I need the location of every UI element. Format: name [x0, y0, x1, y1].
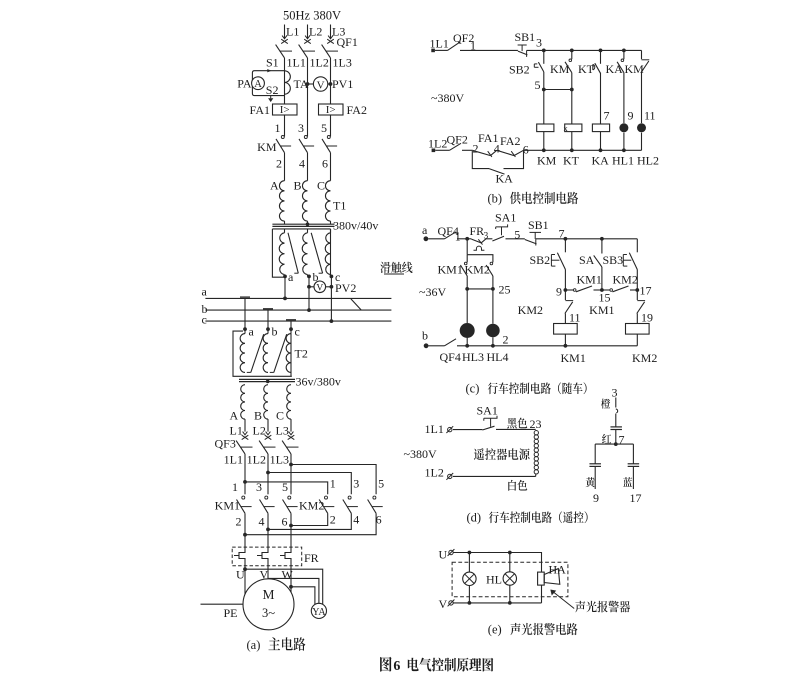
FR heater elements: [234, 547, 291, 566]
wire yellow tail: [594, 466, 596, 489]
svg-text:1: 1: [455, 230, 461, 244]
contactor KM1 main: [215, 496, 298, 513]
top rail b: [544, 49, 642, 53]
label 380V b: [431, 91, 464, 105]
wire a-QF4: [428, 238, 444, 240]
terminal 1L2 d: [446, 473, 453, 480]
node 1 b: [470, 39, 476, 53]
lamp HL4: [486, 324, 500, 338]
wire KM-T1 A: [284, 153, 286, 181]
node 1L1: [287, 56, 306, 70]
svg-text:1L2: 1L2: [247, 453, 266, 467]
node 1L2: [310, 56, 329, 70]
svg-text:YA: YA: [312, 607, 326, 618]
label W: [282, 568, 294, 582]
wire HL1 out: [623, 133, 625, 151]
svg-text:4: 4: [259, 515, 265, 529]
node 1L1 d: [425, 422, 444, 436]
terminal T2 b: [266, 325, 277, 339]
caption e: [488, 623, 578, 637]
node 11 b: [644, 109, 656, 123]
svg-text:S1: S1: [266, 56, 279, 70]
node 7 c: [559, 226, 568, 240]
node KM2-1: [330, 477, 336, 491]
svg-text:SA1: SA1: [477, 404, 498, 418]
wire QF3-KM1 1: [244, 454, 246, 494]
node 9 b: [628, 109, 634, 123]
wire KA drop: [623, 50, 625, 59]
caption b: [488, 192, 579, 206]
svg-text:A: A: [270, 178, 279, 192]
switch SA1 c: [492, 211, 516, 242]
wire tap a: [244, 298, 246, 329]
wire SB2 drop: [543, 50, 545, 63]
svg-text:PV2: PV2: [335, 281, 356, 295]
wire a-bus: [284, 276, 286, 298]
svg-text:~380V: ~380V: [431, 91, 464, 105]
contact KT delay: [578, 50, 601, 76]
wire KMaux-KT: [571, 73, 573, 124]
wire KM2 out 3: [245, 513, 376, 534]
svg-text:4: 4: [299, 157, 305, 171]
svg-text:B: B: [294, 178, 302, 192]
svg-text:a: a: [288, 270, 294, 284]
svg-text:6: 6: [322, 157, 328, 171]
svg-text:U: U: [236, 568, 245, 582]
wire KM2 out 1: [291, 513, 328, 525]
wire branch 1L1: [243, 480, 328, 494]
node 17 d: [630, 491, 642, 505]
label HL e: [486, 573, 502, 587]
svg-text:HA: HA: [549, 563, 567, 577]
wire lamp1 out: [468, 586, 470, 603]
svg-text:a: a: [202, 285, 208, 299]
wire KM1nc-coil: [636, 314, 638, 324]
wire 1L2-coil d: [453, 475, 536, 477]
svg-text:1L1: 1L1: [224, 453, 243, 467]
T1 secondary outline: [272, 229, 330, 277]
wire SB1-7: [536, 238, 566, 240]
svg-text:L2: L2: [253, 424, 266, 438]
node KM1-2: [236, 515, 242, 529]
svg-text:HL4: HL4: [487, 350, 509, 364]
svg-text:KA: KA: [592, 154, 610, 168]
wire 1L2-QF2: [435, 149, 449, 151]
label bus b: [202, 302, 208, 316]
svg-text:1L2: 1L2: [310, 56, 329, 70]
svg-text:1: 1: [232, 480, 238, 494]
svg-text:T2: T2: [295, 347, 308, 361]
svg-text:KA: KA: [496, 172, 514, 186]
svg-text:2: 2: [276, 157, 282, 171]
wire 1-down: [466, 239, 468, 255]
node 1 c: [455, 230, 461, 244]
bus slider mark: [351, 299, 361, 310]
wire c-bus: [330, 276, 332, 321]
svg-text:4: 4: [494, 142, 500, 156]
label C: [317, 178, 325, 192]
wire KM aux drop: [571, 50, 573, 59]
node KM1-1: [232, 480, 238, 494]
node 9 d: [593, 491, 599, 505]
terminal 1L2 b: [432, 149, 436, 153]
node 3 b: [536, 36, 546, 53]
wire KM1 out 1: [243, 513, 247, 547]
node 5 b: [535, 78, 574, 92]
wire split d: [595, 443, 633, 445]
label FR: [304, 551, 319, 565]
svg-text:c: c: [295, 325, 300, 339]
wire QF3-KM1 2: [267, 454, 269, 494]
relay contact FA1: [472, 131, 498, 157]
node 6 b: [523, 143, 529, 157]
contact KM2 aux lamp: [465, 262, 493, 276]
T2 core: [239, 379, 295, 383]
svg-text:1L2: 1L2: [425, 466, 444, 480]
svg-text:C: C: [317, 178, 325, 192]
contact KM nc b: [625, 60, 650, 76]
T2 primary windings: [240, 329, 308, 372]
wire SA drop c: [601, 239, 603, 254]
svg-text:QF4: QF4: [440, 350, 461, 364]
label KT coil: [563, 154, 580, 168]
wire KM2 drop b: [641, 50, 643, 59]
wire FR-motor W: [289, 566, 293, 593]
label B: [294, 178, 302, 192]
svg-text:C: C: [276, 409, 284, 423]
label KM coil: [537, 154, 557, 168]
wire HL3 out: [466, 338, 468, 346]
alarm dashed box: [452, 562, 568, 596]
bus line a: [205, 297, 391, 301]
wire KM2 out 2: [268, 513, 351, 529]
wire SB1-3: [527, 49, 544, 51]
node KM2-5: [378, 477, 384, 491]
collector c: [286, 319, 296, 321]
node L2 low: [253, 424, 266, 438]
KA bypass wire: [472, 151, 523, 169]
wire blue drop: [632, 444, 634, 464]
T2 sliders: [251, 334, 287, 372]
coil KM: [537, 124, 554, 132]
wire 1L2: [307, 58, 309, 137]
contact KM2 hold: [602, 273, 638, 292]
wire FR-motor V: [267, 566, 269, 579]
node KM1-5: [282, 480, 288, 494]
svg-text:9: 9: [628, 109, 634, 123]
wire L3 drop: [330, 25, 332, 39]
label 36v/380v: [296, 375, 341, 389]
capacitor yellow: [589, 464, 601, 467]
label 36V: [419, 285, 446, 299]
label 380V d: [404, 447, 437, 461]
svg-text:KT: KT: [578, 62, 595, 76]
svg-text:SB2: SB2: [530, 253, 551, 267]
label huang: [586, 477, 595, 487]
svg-text:FA2: FA2: [347, 103, 367, 117]
svg-text:3: 3: [256, 480, 262, 494]
svg-text:2: 2: [330, 513, 336, 527]
svg-text:SA1: SA1: [495, 211, 516, 225]
svg-text:SB1: SB1: [528, 218, 549, 232]
label KA coil: [592, 154, 610, 168]
coil KM2: [626, 324, 650, 335]
svg-text:SB1: SB1: [515, 30, 536, 44]
node 3: [298, 121, 304, 135]
svg-text:1L1: 1L1: [287, 56, 306, 70]
svg-text:FA2: FA2: [500, 134, 520, 148]
wire T2-QF3 1: [244, 419, 246, 432]
svg-text:3: 3: [298, 121, 304, 135]
node 1L1 low: [224, 453, 243, 467]
label QF4 bottom: [440, 350, 461, 364]
svg-text:QF3: QF3: [215, 437, 236, 451]
svg-text:FR: FR: [470, 224, 485, 238]
node 2 c: [503, 333, 509, 347]
wire KM1 out 3: [289, 513, 293, 547]
node 9 c: [556, 285, 567, 299]
terminal b c: [424, 343, 429, 348]
svg-text:25: 25: [499, 283, 511, 297]
wire SB3 drop c: [636, 239, 638, 253]
wire KT coil out: [571, 132, 573, 151]
svg-text:380v/40v: 380v/40v: [333, 219, 378, 233]
wire HL1 drop: [623, 73, 625, 123]
label bus c: [202, 313, 207, 327]
label 50Hz 380V: [283, 9, 341, 23]
svg-text:a: a: [422, 223, 428, 237]
svg-text:9: 9: [593, 491, 599, 505]
coil KT: [564, 124, 582, 133]
T1 secondary windings: [279, 229, 330, 275]
svg-text:HL: HL: [486, 573, 502, 587]
svg-text:3: 3: [612, 386, 618, 400]
node KM2-4: [353, 513, 359, 527]
caption c: [466, 382, 587, 396]
node 1L3: [333, 56, 352, 70]
wire HL4 drop: [492, 289, 494, 324]
svg-text:3: 3: [536, 36, 542, 50]
wire QF2-SB1: [460, 49, 518, 51]
label PE: [201, 604, 244, 620]
svg-text:b: b: [422, 329, 428, 343]
svg-text:A: A: [230, 409, 239, 423]
svg-text:(c): (c): [466, 382, 480, 396]
label B2: [254, 409, 262, 423]
svg-text:5: 5: [378, 477, 384, 491]
terminal 1L1 d: [446, 426, 453, 433]
wire SA1-SB1: [506, 238, 525, 240]
svg-text:5: 5: [514, 228, 520, 242]
wire 17-KM1nc: [636, 290, 638, 300]
node 2: [276, 157, 282, 171]
svg-text:QF2: QF2: [447, 133, 468, 147]
lamp HL2: [637, 123, 646, 132]
terminal T2 c: [289, 325, 300, 339]
svg-text:KM1: KM1: [215, 499, 240, 513]
svg-text:L3: L3: [276, 424, 289, 438]
wire SB2-coil: [543, 72, 545, 124]
svg-text:I>: I>: [280, 104, 290, 116]
svg-text:A: A: [254, 79, 262, 90]
svg-text:5: 5: [282, 480, 288, 494]
wire lamp2 out: [509, 585, 511, 603]
T2 secondary windings: [241, 385, 291, 419]
svg-text:b: b: [272, 325, 278, 339]
svg-text:1L3: 1L3: [270, 453, 289, 467]
breaker QF2 top: [448, 31, 475, 50]
label cheng: [601, 399, 610, 409]
svg-text:KT: KT: [563, 154, 580, 168]
svg-text:5: 5: [535, 78, 541, 92]
wire FR-motor U: [243, 566, 247, 595]
label A2: [230, 409, 239, 423]
wire KM2 coil out: [636, 334, 638, 346]
node 4: [299, 157, 305, 171]
node L1: [286, 25, 299, 39]
button SB1 c: [525, 218, 549, 245]
T1 slider feet: [294, 272, 322, 274]
svg-text:2: 2: [236, 515, 242, 529]
svg-text:~36V: ~36V: [419, 285, 446, 299]
node 1L1 b: [430, 37, 449, 51]
breaker QF3: [215, 432, 299, 454]
button SB1 b: [515, 30, 536, 57]
capacitor blue: [628, 464, 640, 467]
node 25: [465, 283, 510, 297]
coil KA: [592, 124, 609, 132]
node KM1-4: [259, 515, 265, 529]
T1 secondary sliders: [288, 233, 323, 273]
label bus a: [202, 285, 208, 299]
node 1L2 b: [428, 137, 447, 151]
lamp HL e2: [503, 572, 516, 585]
wire lamp2 stub: [509, 553, 511, 572]
contact KM1 hold: [565, 273, 602, 292]
svg-text:KM2: KM2: [613, 273, 638, 287]
top wire e: [454, 551, 542, 572]
svg-text:36v/380v: 36v/380v: [296, 375, 341, 389]
svg-text:KM1: KM1: [438, 263, 463, 277]
node KM2-6: [376, 513, 382, 527]
contactor KM2 main: [299, 496, 383, 513]
svg-text:KM1: KM1: [561, 351, 586, 365]
relay FA1: [250, 103, 297, 117]
wire KM-T1 B: [307, 153, 309, 181]
wire KM2aux-25: [492, 276, 494, 289]
svg-text:PA: PA: [237, 77, 252, 91]
svg-text:11: 11: [569, 311, 581, 325]
node 7 b: [604, 109, 610, 123]
svg-text:9: 9: [556, 285, 562, 299]
bus line c: [205, 319, 391, 323]
svg-text:QF1: QF1: [337, 35, 358, 49]
wire HL2 drop: [641, 73, 643, 123]
svg-text:5: 5: [321, 121, 327, 135]
svg-text:(d): (d): [467, 511, 482, 525]
bottom wire e: [454, 601, 542, 605]
label remote power: [474, 448, 530, 460]
svg-text:KM: KM: [537, 154, 557, 168]
svg-text:KM2: KM2: [518, 303, 543, 317]
wire tap c: [290, 321, 292, 329]
button SB2 b: [509, 62, 544, 76]
node L2: [309, 25, 322, 39]
svg-text:KM: KM: [550, 62, 570, 76]
svg-text:2: 2: [503, 333, 509, 347]
label lan: [623, 477, 632, 487]
rail 7 c: [565, 237, 637, 241]
wire SB2 drop c: [564, 239, 566, 253]
wire 1L1-QF2: [435, 49, 448, 51]
node 5 c: [514, 228, 520, 242]
wire yellow drop: [594, 444, 596, 464]
svg-text:SB3: SB3: [603, 253, 624, 267]
node KM1-3: [256, 480, 262, 494]
collector a: [240, 296, 250, 298]
node 3 d: [612, 386, 618, 400]
ground S2: [268, 96, 273, 102]
wire 3-cap: [616, 398, 618, 427]
svg-text:50Hz 380V: 50Hz 380V: [283, 9, 341, 23]
svg-text:1L1: 1L1: [425, 422, 444, 436]
node L3 low: [276, 424, 289, 438]
label S1: [266, 56, 279, 70]
wire HL3 drop: [466, 289, 468, 323]
svg-text:4: 4: [353, 513, 359, 527]
label U e: [439, 547, 448, 561]
terminal T2 a: [243, 325, 254, 339]
breaker QF1: [276, 35, 358, 58]
terminal a: [283, 270, 294, 284]
wire QF4-FR: [457, 237, 471, 241]
node 6: [322, 157, 328, 171]
contact KM2 interlock: [518, 301, 581, 325]
lamp HL3: [460, 323, 475, 338]
label V: [260, 568, 269, 582]
caption d: [467, 511, 588, 525]
wire 1L1: [284, 58, 286, 104]
breaker QF2 bottom: [447, 133, 468, 151]
svg-text:c: c: [202, 313, 207, 327]
collector b: [263, 308, 273, 310]
contact KM aux: [550, 59, 572, 76]
svg-text:1L2: 1L2: [428, 137, 447, 151]
svg-text:L1: L1: [286, 25, 299, 39]
wire 1L1-SA1 d: [453, 429, 482, 431]
contact KM1 aux lamp: [438, 262, 468, 276]
motor M: [243, 579, 294, 630]
node 4 b: [494, 142, 500, 156]
label HL4: [487, 350, 509, 364]
wire KM1aux-25: [466, 276, 468, 289]
wire S1: [252, 69, 284, 95]
relay FA2: [319, 103, 367, 117]
wire L2 drop: [307, 25, 309, 39]
wire L1 drop: [284, 25, 286, 39]
wire FR-SA1: [486, 238, 492, 240]
wire b-bus: [308, 276, 310, 310]
wire b-QF4: [429, 345, 445, 347]
svg-text:I>: I>: [326, 104, 336, 116]
wire KA-coil: [600, 73, 602, 124]
node 17 c: [635, 284, 651, 298]
label b c: [422, 329, 428, 343]
wire QF3-KM1 3: [290, 454, 292, 494]
label V e: [439, 597, 448, 611]
svg-text:17: 17: [640, 284, 652, 298]
svg-text:23: 23: [530, 417, 542, 431]
